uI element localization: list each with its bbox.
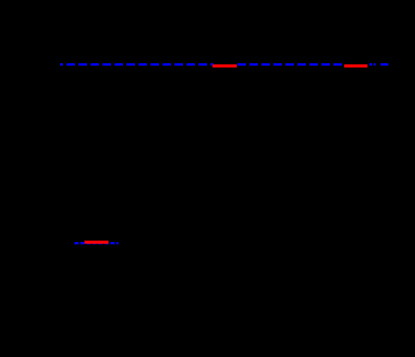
wire: blue dashed series line (left span) [60,63,214,65]
wire: blue dashed series line (middle span) [237,63,344,65]
wire: legend blue dashed sample [75,242,119,244]
node A: red anomaly segment 1 [213,64,237,67]
wire: blue dashed series line (right span) [369,63,389,65]
node B: red anomaly segment 2 [344,64,367,67]
node C: legend red segment [85,241,109,244]
